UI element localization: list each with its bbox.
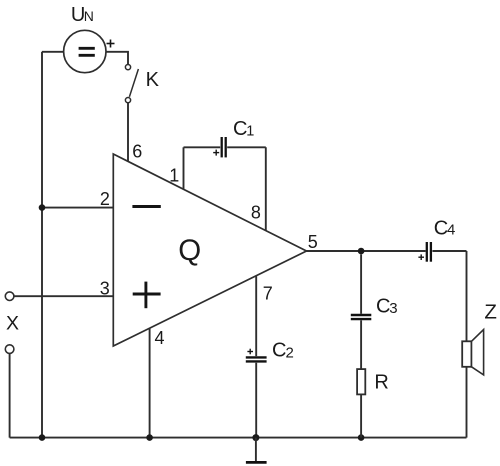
op-amp Q triangle (113, 154, 306, 346)
input terminal X bottom (5, 345, 14, 354)
wire speaker to rail (466, 367, 468, 438)
voltage source UN circle (64, 30, 106, 72)
junction dot R bottom (358, 434, 365, 441)
capacitor C4 plates (427, 242, 431, 262)
wire UN left terminal to left rail corner (42, 51, 64, 53)
minus input symbol (132, 205, 160, 208)
svg-text:4: 4 (155, 328, 165, 348)
wire right side down to speaker (466, 251, 468, 341)
junction dot pin 2 on left rail (39, 204, 46, 211)
svg-text:C: C (272, 340, 286, 362)
svg-text:N: N (84, 8, 94, 24)
resistor R body (357, 369, 365, 394)
plus input symbol (133, 282, 161, 309)
svg-text:Z: Z (484, 301, 497, 324)
equals symbol inside UN (79, 48, 95, 55)
svg-text:2: 2 (100, 189, 110, 209)
wire C2 to rail (255, 363, 257, 438)
wire pin 7 down to C2 (255, 276, 257, 356)
capacitor C1 plates (222, 137, 226, 157)
junction dot pin 4 bottom (146, 434, 153, 441)
speaker Z cone (472, 330, 484, 375)
switch K bottom contact (125, 98, 130, 103)
wire pin 2 (42, 207, 113, 209)
svg-text:1: 1 (246, 123, 254, 139)
junction dot left rail bottom (39, 434, 46, 441)
capacitor C2 plates (246, 357, 267, 361)
wire X bottom terminal to rail (9, 354, 11, 438)
junction dot output node (358, 248, 365, 255)
svg-text:Q: Q (178, 234, 201, 267)
svg-text:C: C (376, 296, 390, 318)
svg-text:2: 2 (286, 345, 294, 362)
junction dot C2 bottom (252, 434, 259, 441)
wire output node down to C3 (360, 254, 362, 313)
wire C1 down to pin 8 (265, 147, 267, 230)
ground bar (246, 461, 267, 464)
plus mark of C4 (418, 254, 424, 260)
svg-text:4: 4 (447, 222, 455, 239)
wire C1 left segment (184, 146, 221, 148)
svg-text:X: X (6, 312, 19, 334)
wire R to rail (360, 394, 362, 437)
svg-text:8: 8 (251, 203, 261, 223)
switch K top contact (125, 65, 130, 70)
wire UN right terminal to switch (106, 52, 128, 65)
wire switch to pin 6 (127, 103, 129, 162)
wire C3 to R (360, 320, 362, 369)
plus mark of C1 (213, 150, 219, 156)
wire pin 3 input (14, 295, 113, 297)
switch K blade (129, 69, 138, 97)
wire pin 4 (149, 328, 151, 438)
svg-text:7: 7 (263, 284, 273, 304)
svg-text:6: 6 (132, 141, 142, 161)
wire pin 1 up to C1 (183, 147, 185, 189)
bottom ground rail (10, 437, 467, 439)
speaker Z body (462, 341, 471, 367)
capacitor C3 plates (351, 315, 372, 319)
wire C1 right segment (227, 146, 266, 148)
plus terminal mark of UN (107, 40, 115, 48)
svg-text:3: 3 (389, 300, 397, 317)
svg-text:R: R (374, 372, 388, 394)
wire left supply rail (41, 52, 43, 438)
ground stub (255, 438, 257, 461)
wire pin 5 output (307, 250, 426, 252)
svg-text:1: 1 (169, 166, 179, 186)
input terminal X top (5, 292, 14, 301)
svg-text:C: C (233, 118, 247, 140)
svg-text:3: 3 (100, 279, 110, 299)
wire C4 to top right corner (432, 250, 466, 252)
svg-text:C: C (434, 217, 448, 239)
svg-text:K: K (146, 69, 160, 91)
svg-text:5: 5 (308, 232, 318, 252)
plus mark of C2 (247, 349, 253, 355)
